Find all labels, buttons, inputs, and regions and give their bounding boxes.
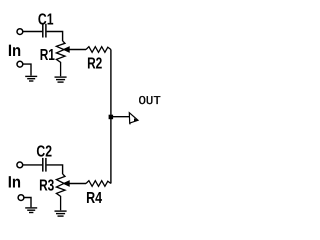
svg-text:In: In — [8, 42, 21, 60]
terminal In1 — [17, 29, 23, 35]
svg-text:R2: R2 — [87, 55, 102, 72]
wire summing net (R2 right end down to R4 right end) — [110, 50, 112, 184]
resistor R4 — [86, 181, 111, 187]
wire In2 to C2 — [23, 164, 43, 166]
wire R3 wiper to R4 — [69, 183, 86, 185]
terminal In2 ground side — [18, 195, 24, 201]
svg-text:In: In — [8, 173, 21, 191]
wire terminal to ground (bottom left) — [24, 198, 31, 208]
wire C1 to R1 — [47, 32, 63, 42]
resistor R2 — [86, 47, 111, 53]
svg-text:R3: R3 — [39, 178, 54, 195]
capacitor C1 — [43, 24, 46, 38]
svg-text:OUT: OUT — [139, 94, 161, 108]
junction summing node — [109, 115, 114, 120]
ground (top left) — [25, 76, 37, 81]
wire R1 wiper to R2 — [69, 49, 86, 51]
svg-text:C2: C2 — [36, 143, 52, 160]
wire terminal to ground (top left) — [23, 64, 31, 76]
wire C2 to R3 — [47, 165, 63, 174]
wire In1 to C1 — [23, 31, 42, 33]
potentiometer R3 — [56, 174, 69, 210]
capacitor C2 — [43, 158, 46, 172]
svg-text:R1: R1 — [40, 47, 55, 64]
port OUT — [129, 113, 138, 125]
svg-text:R4: R4 — [86, 190, 102, 207]
wire node to OUT port — [111, 116, 129, 118]
ground (below R1) — [55, 77, 67, 82]
ground (bottom left) — [25, 208, 37, 213]
potentiometer R1 — [56, 41, 69, 76]
ground (below R3) — [55, 211, 67, 216]
terminal In1 ground side — [17, 61, 23, 67]
terminal In2 — [17, 162, 23, 168]
